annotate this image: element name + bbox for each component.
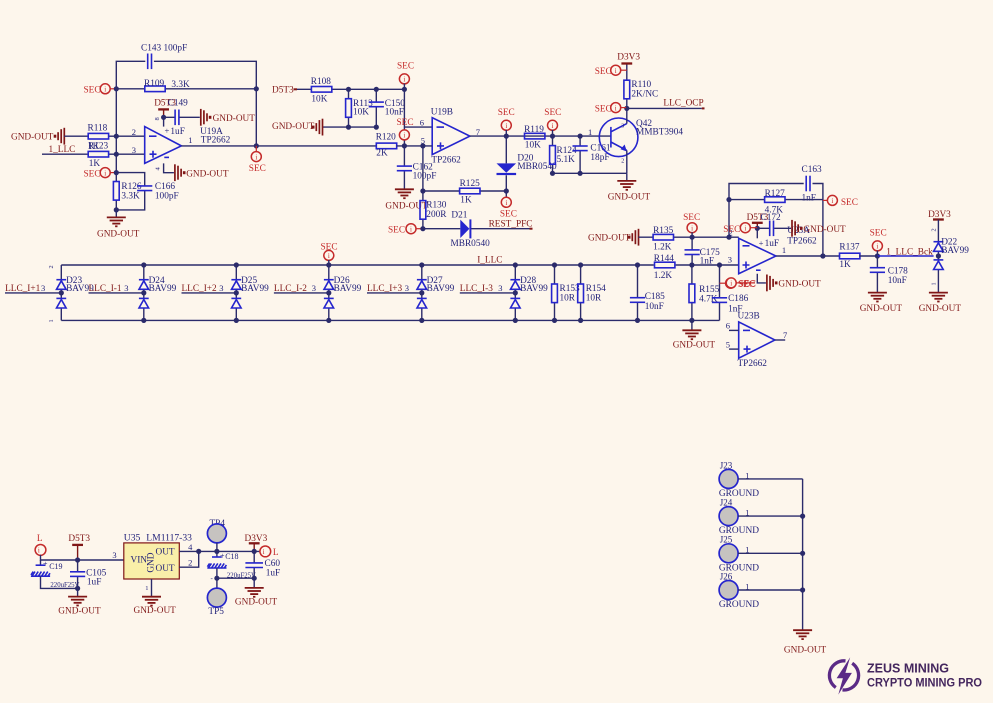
svg-text:2: 2 [132,127,136,137]
op-amp U19B [432,118,470,155]
capacitor C19 electrolytic [40,560,42,565]
supply wire down [757,274,766,283]
feedback vertical wire [729,184,823,257]
svg-text:SEC: SEC [841,198,858,208]
svg-text:SEC: SEC [84,86,101,96]
junction [254,86,259,91]
svg-text:R119: R119 [524,125,544,135]
svg-text:REST_PFC: REST_PFC [489,220,533,230]
power port D3V3 [621,63,632,65]
svg-text:2K/NC: 2K/NC [631,89,658,99]
svg-text:10nF: 10nF [385,108,404,118]
node SEC marker at collector [620,107,627,109]
svg-text:2K: 2K [376,149,388,159]
svg-text:10K: 10K [525,141,541,151]
junction [196,549,201,554]
junction [726,197,731,202]
svg-text:3.3K: 3.3K [171,80,190,90]
diode pair D23 [60,265,62,320]
port LLC_I+3 [367,292,422,294]
svg-text:18pF: 18pF [590,153,609,163]
resistor R126 [115,173,117,210]
svg-text:R123: R123 [88,142,108,152]
svg-text:GND-OUT: GND-OUT [58,607,101,617]
svg-text:3: 3 [124,283,128,293]
node SEC marker at output [255,146,257,152]
wire bottom bus [61,319,719,321]
junction [346,87,351,92]
ground earth at emitter [626,173,628,181]
pin 7 output stub [775,339,785,341]
svg-text:SEC: SEC [683,213,700,223]
ground GND-OUT power port at C172 [792,220,803,237]
diode pair D24 [143,265,145,320]
svg-text:GND-OUT: GND-OUT [919,304,962,314]
ground earth below C60 [253,578,255,588]
wire [738,478,803,480]
svg-text:GND-OUT: GND-OUT [673,341,716,351]
svg-text:2: 2 [931,228,938,231]
port LLC_I-2 [274,292,329,294]
svg-text:6: 6 [420,117,424,127]
pin 4 wire [179,550,260,552]
wire input node [41,555,124,560]
junction [214,576,219,581]
svg-text:SEC: SEC [739,280,756,290]
svg-text:D5T3: D5T3 [68,534,90,544]
svg-text:C18: C18 [225,552,238,561]
svg-text:GND-OUT: GND-OUT [235,598,278,608]
resistor R119 [525,133,545,139]
resistor R109 [116,88,256,90]
port L circle [35,545,46,556]
svg-text:GND-OUT: GND-OUT [213,114,256,124]
svg-text:i: i [263,548,265,556]
capacitor C166 [116,173,144,210]
ground earth below bus [691,320,693,330]
junction [374,125,379,130]
svg-text:3: 3 [728,254,732,264]
svg-text:TP2662: TP2662 [201,135,231,145]
svg-text:GND-OUT: GND-OUT [860,304,903,314]
svg-text:D5T3: D5T3 [272,86,294,96]
svg-text:SEC: SEC [595,67,612,77]
wire vertical SEC chain [403,89,405,146]
svg-text:MBR0540: MBR0540 [451,239,491,249]
svg-text:1nF: 1nF [802,193,816,203]
svg-text:C172: C172 [761,213,781,223]
svg-text:C186: C186 [728,294,748,304]
regulator U35 LM1117-33 [124,543,180,579]
node SEC marker at R130 bottom [416,228,423,230]
svg-text:1.2K: 1.2K [654,271,673,281]
wire to D22 [877,255,933,257]
node SEC marker right of R127 [823,199,828,201]
svg-text:+: + [165,126,170,136]
junction [875,253,880,258]
svg-text:TP2662: TP2662 [738,359,768,369]
svg-text:100pF: 100pF [413,172,437,182]
resistor R110 [626,65,628,109]
svg-text:+: + [759,238,764,248]
capacitor C143 [148,54,152,70]
capacitor C105 [77,560,79,588]
node SEC marker lower [110,172,117,174]
logo lightning bolt [837,657,852,694]
port LLC_OCP [627,107,702,109]
junction [504,134,509,139]
junction [114,152,119,157]
capacitor C150 [375,89,377,127]
junction [726,235,731,240]
op-amp U19A [145,127,182,164]
test point TP5 [216,578,218,588]
svg-text:U19B: U19B [431,108,453,118]
svg-text:LLC_I+1: LLC_I+1 [5,284,41,294]
svg-text:C163: C163 [802,165,822,175]
wire ground bus vertical [802,479,804,630]
diode pair D25 [235,265,237,320]
svg-text:TP5: TP5 [208,607,224,617]
resistor R155 [691,265,693,320]
wire bottom rail [217,577,254,579]
svg-text:C19: C19 [49,562,62,571]
junction [578,171,583,176]
svg-text:SEC: SEC [388,225,405,235]
svg-text:U35: U35 [124,532,141,543]
junction [550,171,555,176]
svg-text:3: 3 [112,550,116,560]
supply wire up D5T3 [756,228,758,238]
svg-text:1: 1 [588,127,592,137]
resistor R130 [422,146,424,229]
svg-text:1uF: 1uF [87,578,101,588]
node SEC marker at R137 right [872,241,882,251]
node SEC marker at R110 top [620,69,627,71]
svg-text:R135: R135 [653,226,673,236]
svg-text:4: 4 [188,542,193,552]
svg-text:R137: R137 [839,243,859,253]
junction [114,134,119,139]
resistor R135 [639,236,739,238]
svg-text:D3V3: D3V3 [617,53,640,63]
resistor R123 [88,151,108,157]
wire left vertical [115,89,117,173]
ground rail wire [323,126,377,128]
svg-text:SEC: SEC [397,61,414,71]
svg-text:OUT: OUT [156,564,175,574]
node SEC marker above D20 [501,120,511,130]
pin 5 stub [729,348,739,350]
wire emitter rail [553,172,627,174]
svg-text:BAV99: BAV99 [334,284,362,294]
pin 2 wire [179,551,198,567]
junction [161,115,166,120]
ground earth [115,210,117,218]
wire pin 6 [404,126,432,128]
svg-text:i: i [38,547,40,555]
svg-text:1nF: 1nF [700,256,714,266]
svg-text:200R: 200R [426,210,447,220]
svg-text:D21: D21 [451,210,467,220]
junction [252,576,257,581]
svg-text:LLC_I-1: LLC_I-1 [89,284,122,294]
svg-text:SEC: SEC [723,225,740,235]
svg-text:3: 3 [312,283,316,293]
svg-text:1uF: 1uF [765,239,779,249]
svg-text:OUT: OUT [156,548,175,558]
svg-text:1K: 1K [460,195,472,205]
junction [550,134,555,139]
junction [346,125,351,130]
ground earth [793,630,812,639]
svg-text:+: + [43,559,48,568]
svg-text:C185: C185 [645,292,665,302]
diode pair D22 [937,220,939,293]
supply wire up D5T3 [163,117,165,126]
svg-text:1: 1 [188,135,192,145]
junction [374,87,379,92]
wire [738,589,803,591]
junction [578,134,583,139]
junction [755,226,760,231]
junction [254,143,259,148]
svg-text:7: 7 [476,127,480,137]
output wire [776,255,840,257]
svg-text:C166: C166 [155,182,175,192]
svg-text:BAV99: BAV99 [149,284,177,294]
svg-text:1.2K: 1.2K [653,243,672,253]
svg-text:I_LLC: I_LLC [477,255,502,265]
junction [114,86,119,91]
svg-text:GND-OUT: GND-OUT [784,645,827,655]
resistor R108 [297,88,404,90]
supply wire down [164,163,174,172]
svg-text:LM1117-33: LM1117-33 [146,532,192,543]
capacitor C186 [719,265,721,320]
resistor R125 [423,190,506,192]
svg-text:CRYPTO MINING PRO: CRYPTO MINING PRO [867,676,982,690]
port L circle right [260,546,271,557]
svg-text:R109: R109 [144,79,164,89]
svg-text:R120: R120 [376,132,396,142]
wire [738,515,803,517]
svg-text:BAV99: BAV99 [241,284,269,294]
svg-text:SEC: SEC [595,104,612,114]
svg-text:GND-OUT: GND-OUT [186,169,229,179]
junction [402,87,407,92]
ground GND-OUT power port at C149 [201,109,212,126]
svg-text:GND-OUT: GND-OUT [803,225,846,235]
diode pair D27 [421,265,423,320]
ground earth below C105 [77,588,79,596]
svg-text:2: 2 [621,159,624,165]
ground GND-OUT power port [312,119,323,136]
junction [820,253,825,258]
pin 6 stub [729,329,739,331]
junction [420,143,425,148]
junction [690,235,695,240]
svg-text:ZEUS MINING: ZEUS MINING [867,662,949,676]
port LLC_I+1 [5,292,61,294]
resistor R144 in bus [655,262,675,268]
svg-text:SEC: SEC [84,169,101,179]
ground earth below D22 [929,293,948,302]
resistor R120 on pin5 line [376,143,396,149]
capacitor C185 [637,265,639,320]
svg-text:BAV99: BAV99 [427,284,455,294]
svg-text:1uF: 1uF [266,568,280,578]
svg-text:LLC_I+3: LLC_I+3 [367,284,403,294]
wire [738,552,803,554]
svg-text:1: 1 [931,282,938,285]
svg-text:BAV99: BAV99 [941,246,969,256]
resistor R127 [729,199,823,201]
logo ring [829,661,858,690]
svg-text:L: L [273,548,279,558]
svg-text:10R: 10R [560,293,576,303]
node SEC marker at supply minus [736,282,755,284]
svg-text:SEC: SEC [498,108,515,118]
wire pin2 [64,135,144,137]
ground GND-OUT power port below U19A [175,164,186,181]
svg-text:GND-OUT: GND-OUT [97,229,140,239]
capacitor C161 [579,136,581,173]
capacitor C162 [403,146,405,189]
junction collector node [624,106,629,111]
svg-text:GND-OUT: GND-OUT [272,122,315,132]
junction R125 join [504,188,509,193]
junction [420,226,425,231]
node SEC marker left of R109 [110,88,117,90]
svg-text:SEC: SEC [321,242,338,252]
node SEC marker top [399,74,409,84]
svg-text:GND-OUT: GND-OUT [588,234,631,244]
ground earth below C178 [868,293,887,302]
svg-text:C60: C60 [265,559,281,569]
capacitor C18 electrolytic [216,551,218,557]
junction [75,557,80,562]
svg-text:3: 3 [498,283,502,293]
svg-text:5.1K: 5.1K [557,155,576,165]
svg-text:SEC: SEC [500,210,517,220]
svg-text:GND-OUT: GND-OUT [778,280,821,290]
svg-text:R118: R118 [88,124,108,134]
svg-text:L: L [37,534,43,544]
svg-text:R108: R108 [311,77,331,87]
svg-text:1_LLC: 1_LLC [49,145,76,155]
ground GND-OUT power port at R118 [54,128,65,145]
capacitor C60 [253,551,255,578]
svg-text:LLC_OCP: LLC_OCP [663,99,703,109]
svg-text:TP2662: TP2662 [787,236,817,246]
svg-text:VIN: VIN [131,555,148,565]
svg-text:GND-OUT: GND-OUT [385,202,428,212]
svg-text:6: 6 [726,321,730,331]
junction [114,170,119,175]
capacitor C175 [691,237,693,265]
resistor R137 [840,253,860,259]
svg-text:C149: C149 [168,98,188,108]
svg-text:10nF: 10nF [888,276,907,286]
op-amp U23B [739,322,775,358]
transistor Q42 [599,118,638,157]
capacitor C172 [757,227,791,229]
net 1_LLC wire [42,153,145,155]
ground GND-OUT power port below U23A [767,275,778,292]
svg-text:GND-OUT: GND-OUT [11,133,54,143]
svg-text:3: 3 [621,124,624,130]
svg-text:10R: 10R [586,293,602,303]
svg-text:1uF: 1uF [170,127,184,137]
svg-text:LLC_I-3: LLC_I-3 [460,284,493,294]
svg-text:LLC_I+2: LLC_I+2 [182,284,218,294]
port LLC_I-1 [89,292,144,294]
svg-text:GND-OUT: GND-OUT [608,193,651,203]
capacitor C163 [806,176,810,192]
diode pair D26 [328,265,330,320]
diode D20 [505,136,507,198]
resistor R153 [554,265,556,320]
svg-text:1: 1 [782,245,786,255]
svg-text:SEC: SEC [870,229,887,239]
svg-text:5: 5 [726,339,730,349]
diode D21 [423,228,530,230]
junction R125 tee [420,188,425,193]
svg-text:10nF: 10nF [645,302,664,312]
junction [114,207,119,212]
diode pair D28 [514,265,516,320]
node SEC marker at R119 right [548,120,558,130]
wire feedback top [116,61,256,146]
svg-text:8: 8 [154,117,161,120]
svg-text:SEC: SEC [249,164,266,174]
svg-text:SEC: SEC [544,108,561,118]
svg-text:R125: R125 [460,179,480,189]
wire U19B output to base [470,135,611,137]
node SEC marker mid [399,130,409,140]
resistor R124 [552,136,554,173]
regulator ground pin [151,579,153,597]
svg-text:3.3K: 3.3K [121,191,140,201]
svg-text:TP2662: TP2662 [431,156,461,166]
svg-text:3: 3 [405,283,409,293]
svg-text:1K: 1K [839,260,851,270]
svg-text:1: 1 [145,585,148,592]
svg-text:7: 7 [783,330,787,340]
svg-text:100pF: 100pF [155,191,179,201]
resistor R113 [348,89,350,127]
svg-text:10K: 10K [353,108,369,118]
svg-text:C143 100pF: C143 100pF [141,44,187,54]
capacitor C178 [876,256,878,293]
capacitor C149 [164,116,200,118]
svg-text:MMBT3904: MMBT3904 [636,128,683,138]
svg-text:3: 3 [219,283,223,293]
svg-text:GND-OUT: GND-OUT [134,606,177,616]
ground earth below C162 [395,189,414,198]
svg-text:R144: R144 [654,254,674,264]
svg-text:1K: 1K [89,159,101,169]
port LLC_I-3 [460,292,516,294]
svg-text:BAV99: BAV99 [520,284,548,294]
svg-text:U23B: U23B [738,312,760,322]
node SEC marker above D26 [324,250,334,260]
resistor R118 [88,133,108,139]
output wire [181,145,376,147]
svg-text:2: 2 [48,265,55,268]
node SEC marker above C175 [687,223,697,233]
